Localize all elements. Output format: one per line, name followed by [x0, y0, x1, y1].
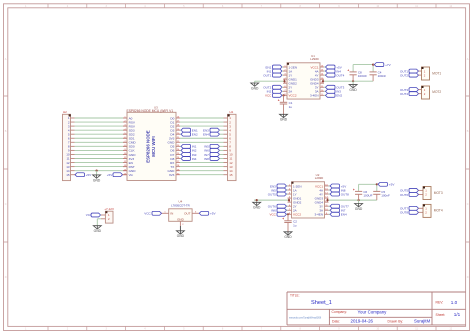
- wire: [71, 145, 128, 147]
- wire: [71, 162, 128, 164]
- ground: [251, 83, 259, 90]
- wire: [71, 158, 128, 160]
- svg-text:100nF: 100nF: [381, 194, 390, 198]
- svg-text:1.0: 1.0: [451, 300, 458, 305]
- capacitor C2: [282, 217, 297, 232]
- node EN1: [180, 128, 198, 132]
- svg-text:+: +: [347, 69, 349, 73]
- svg-text:GND: GND: [280, 118, 288, 122]
- svg-text:OUT4: OUT4: [400, 92, 408, 96]
- svg-text:VCC2: VCC2: [293, 213, 301, 217]
- svg-text:EN4: EN4: [203, 133, 209, 137]
- svg-text:VCC: VCC: [144, 212, 151, 216]
- svg-text:2019-04-26: 2019-04-26: [351, 319, 374, 324]
- svg-text:+5V: +5V: [86, 173, 93, 177]
- svg-text:C: C: [5, 203, 7, 206]
- connector H1: [228, 110, 237, 181]
- svg-text:EN2: EN2: [192, 133, 198, 137]
- svg-text:Company:: Company:: [332, 310, 348, 314]
- node OUT4: [324, 73, 345, 77]
- svg-text:Sheet_1: Sheet_1: [311, 300, 332, 306]
- svg-text:1u: 1u: [293, 223, 297, 227]
- node EN2: [324, 93, 342, 97]
- node IN7: [204, 153, 227, 157]
- svg-text:TITLE:: TITLE:: [290, 293, 300, 297]
- svg-text:OUT5: OUT5: [268, 192, 276, 196]
- wire: [71, 166, 128, 168]
- svg-text:H1: H1: [230, 110, 234, 114]
- svg-text:OUT6: OUT6: [400, 193, 408, 197]
- svg-text:Date:: Date:: [332, 319, 340, 323]
- wire: [322, 79, 373, 83]
- capacitor C5: [373, 184, 390, 200]
- svg-text:IN: IN: [170, 212, 173, 216]
- svg-text:GND: GND: [349, 88, 357, 92]
- IC U1 L293D: [283, 54, 324, 99]
- svg-text:H2: H2: [63, 110, 67, 114]
- connector H2: [63, 110, 71, 181]
- svg-text:3-4EN: 3-4EN: [314, 213, 323, 217]
- node OUT8: [329, 192, 350, 196]
- svg-text:MOT3: MOT3: [434, 191, 443, 195]
- svg-text:MOT2: MOT2: [432, 90, 441, 94]
- node +5V: [199, 211, 216, 215]
- node EN4: [203, 132, 228, 136]
- svg-text:L293D: L293D: [310, 57, 319, 61]
- svg-text:+: +: [278, 99, 280, 103]
- svg-text:+7V: +7V: [385, 63, 392, 67]
- ground: [355, 200, 363, 211]
- connector MOT2: [422, 86, 442, 99]
- connector MOT4: [423, 204, 443, 217]
- ground: [93, 226, 101, 233]
- svg-text:OUT2: OUT2: [400, 73, 408, 77]
- svg-text:+7-12V: +7-12V: [104, 207, 114, 211]
- svg-text:1/1: 1/1: [454, 312, 461, 317]
- svg-text:VCC2: VCC2: [289, 94, 297, 98]
- node OUT1: [400, 69, 422, 73]
- node IN1: [180, 144, 197, 148]
- node VCC: [86, 213, 101, 217]
- svg-text:GND: GND: [93, 178, 101, 182]
- svg-text:L7805CDT-TR: L7805CDT-TR: [171, 203, 190, 207]
- node IN8: [204, 157, 227, 161]
- node VCC: [269, 212, 287, 216]
- node EN2: [180, 132, 198, 136]
- svg-text:+5V: +5V: [107, 173, 114, 177]
- svg-text:VCC: VCC: [269, 213, 276, 217]
- svg-text:100UF: 100UF: [363, 194, 372, 198]
- svg-text:GND: GND: [284, 235, 292, 239]
- svg-text:OUT4: OUT4: [336, 73, 344, 77]
- node OUT3: [324, 85, 345, 89]
- node OUT5: [268, 192, 288, 196]
- svg-text:OUT1: OUT1: [263, 73, 271, 77]
- capacitor C1: [278, 99, 293, 115]
- svg-text:IN8: IN8: [204, 157, 209, 161]
- svg-text:3-4EN: 3-4EN: [310, 94, 319, 98]
- wire: [180, 125, 228, 127]
- wire: [180, 141, 228, 143]
- node OUT4: [400, 92, 422, 96]
- svg-text:L293D: L293D: [315, 176, 324, 180]
- svg-text:Your Company: Your Company: [358, 310, 388, 315]
- wire: [97, 219, 101, 226]
- svg-text:Vin: Vin: [129, 173, 134, 177]
- connector H3 +7-12V: [101, 207, 114, 223]
- svg-text:EN4: EN4: [341, 213, 347, 217]
- node VCC: [144, 211, 161, 215]
- node IN3: [324, 89, 341, 93]
- node IN2: [180, 148, 197, 152]
- node IN4: [324, 69, 341, 73]
- wire: [71, 137, 128, 139]
- wire: [180, 174, 228, 176]
- svg-text:GND: GND: [177, 218, 185, 222]
- node +7V: [374, 63, 391, 67]
- capacitor C4: [370, 65, 387, 82]
- node +5V: [329, 184, 347, 188]
- ground: [176, 231, 184, 238]
- ground: [280, 114, 288, 121]
- svg-text:Sheet:: Sheet:: [436, 313, 446, 317]
- node IN8: [329, 188, 346, 192]
- wire: [71, 153, 128, 155]
- node VCC: [265, 93, 283, 97]
- svg-text:GND: GND: [94, 229, 102, 233]
- wire: [353, 64, 374, 66]
- svg-text:+5V: +5V: [210, 212, 217, 216]
- wire: [180, 117, 228, 119]
- svg-text:1u: 1u: [289, 105, 293, 109]
- svg-text:ESP8266 NODE: ESP8266 NODE: [146, 130, 151, 163]
- svg-text:OUT: OUT: [184, 212, 191, 216]
- svg-text:Drawn By:: Drawn By:: [388, 319, 404, 323]
- IC U3 ESP8266 NodeMCU: [123, 106, 180, 181]
- svg-text:OUT8: OUT8: [400, 211, 408, 215]
- wire: [255, 79, 286, 83]
- node IN5: [204, 144, 227, 148]
- node OUT6: [400, 193, 423, 197]
- connector MOT1: [422, 67, 442, 80]
- node IN6: [271, 208, 287, 212]
- wire: [287, 213, 289, 220]
- wire: [180, 121, 228, 123]
- wire: [180, 166, 228, 168]
- wire: [71, 121, 128, 123]
- node OUT7: [400, 206, 423, 210]
- node OUT2: [400, 73, 422, 77]
- wire: [282, 94, 284, 102]
- capacitor C6: [353, 184, 373, 200]
- svg-text:+: +: [282, 217, 284, 221]
- node OUT1: [263, 73, 283, 77]
- ground: [284, 232, 292, 239]
- wire: [180, 170, 228, 172]
- svg-text:SurajitM: SurajitM: [414, 319, 430, 324]
- wire: [71, 117, 128, 119]
- svg-text:GND: GND: [177, 234, 185, 238]
- svg-text:MOT1: MOT1: [432, 71, 441, 75]
- svg-text:+5V: +5V: [389, 183, 396, 187]
- svg-text:3V3: 3V3: [169, 173, 175, 177]
- wire: [179, 226, 181, 231]
- wire: [180, 162, 228, 164]
- wire: [71, 170, 128, 175]
- node OUT8: [400, 210, 423, 214]
- node IN1: [267, 69, 283, 73]
- svg-text:GND: GND: [253, 206, 261, 210]
- svg-text:easyeda.com/SurajitM/esp8266: easyeda.com/SurajitM/esp8266: [289, 316, 322, 319]
- wire: [326, 198, 376, 202]
- node IN4: [180, 157, 197, 161]
- node OUT5: [400, 188, 423, 192]
- node OUT3: [400, 88, 422, 92]
- node EN4: [329, 212, 347, 216]
- node IN3: [180, 153, 197, 157]
- node EN3: [203, 128, 228, 132]
- wire: [180, 137, 228, 139]
- svg-text:15: 15: [66, 173, 70, 177]
- ground: [253, 202, 261, 209]
- IC U2 L293D: [288, 173, 329, 218]
- svg-text:OUT8: OUT8: [341, 192, 349, 196]
- node OUT7: [329, 204, 350, 208]
- svg-text:EN2: EN2: [336, 94, 342, 98]
- svg-text:C: C: [467, 203, 469, 206]
- svg-text:MCU WIFI: MCU WIFI: [151, 136, 156, 157]
- wire: [71, 133, 128, 135]
- node OUT6: [268, 204, 288, 208]
- svg-text:ESP8266 NODE MCU (WIFI V1: ESP8266 NODE MCU (WIFI V1: [127, 109, 174, 113]
- connector MOT3: [423, 187, 443, 200]
- svg-text:D: D: [467, 276, 469, 279]
- node IN2: [267, 89, 283, 93]
- node +5V: [107, 173, 127, 177]
- wire: [71, 149, 128, 151]
- node +5V: [378, 182, 395, 186]
- svg-text:100UF: 100UF: [358, 74, 367, 78]
- svg-text:GND: GND: [355, 207, 363, 211]
- svg-text:MOT4: MOT4: [434, 209, 443, 213]
- svg-text:D: D: [5, 276, 7, 279]
- wire: [359, 183, 378, 185]
- wire: [71, 141, 128, 143]
- node EN1: [265, 65, 283, 69]
- svg-text:VCC: VCC: [265, 94, 272, 98]
- node IN6: [204, 148, 227, 152]
- ground: [349, 81, 357, 92]
- svg-text:100nF: 100nF: [378, 74, 387, 78]
- ground: [93, 175, 101, 182]
- wire: [71, 125, 128, 127]
- node EN3: [270, 184, 288, 188]
- svg-text:REV:: REV:: [436, 301, 444, 305]
- wire: [254, 198, 290, 202]
- svg-text:IN4: IN4: [192, 157, 197, 161]
- svg-text:+: +: [353, 188, 355, 192]
- capacitor C8: [347, 65, 367, 82]
- regulator U4 L7805CDT-TR: [162, 200, 200, 227]
- node +5V: [324, 65, 342, 69]
- wire: [71, 129, 128, 131]
- svg-text:15: 15: [229, 173, 233, 177]
- node IN7: [329, 208, 346, 212]
- node IN5: [271, 188, 287, 192]
- node OUT2: [263, 85, 283, 89]
- node +5V: [71, 173, 93, 177]
- svg-text:GND: GND: [251, 86, 259, 90]
